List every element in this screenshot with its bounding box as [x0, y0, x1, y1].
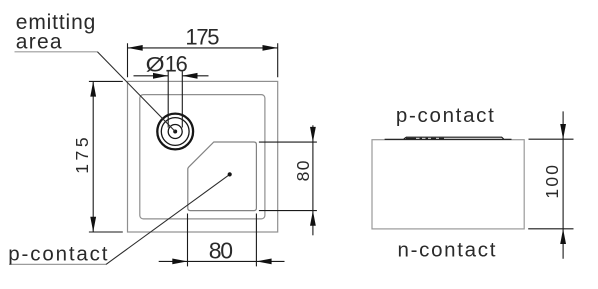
dimension 175 left: extension lines	[89, 81, 123, 232]
side view chip body rectangle	[372, 140, 524, 229]
svg-text:Ø: Ø	[146, 52, 165, 76]
leader: p-contact label diagonal to pad	[106, 174, 230, 264]
side view contact finger dashes	[406, 137, 444, 139]
leader: p-contact label horizontal shoulder	[9, 263, 106, 265]
svg-text:175: 175	[72, 134, 92, 174]
svg-text:80: 80	[293, 159, 313, 181]
svg-text:100: 100	[542, 163, 562, 199]
dimension 80 right: extension lines	[259, 142, 317, 211]
leader dot on pad	[228, 172, 232, 176]
dimension 100: dimension line	[562, 111, 564, 258]
dimension 80 bottom: dimension line	[159, 260, 285, 262]
dimension dia 16: dimension line segments	[134, 75, 209, 77]
leader: emitting area label, horizontal shoulder	[15, 51, 98, 53]
emitting area aperture circle (dia 16)	[168, 125, 182, 139]
dimension 175 left: arrowheads	[90, 81, 96, 96]
dimension 80 bottom: arrowheads	[172, 259, 187, 265]
dimension 100: arrowheads	[560, 124, 566, 139]
dimension 80 right: dimension line	[312, 125, 314, 235]
dimension 175 top: arrowheads	[128, 45, 143, 51]
p-contact pad (chamfered square)	[188, 142, 257, 211]
svg-text:n-contact: n-contact	[398, 239, 498, 262]
emitting area circle middle ring	[161, 118, 189, 146]
dimension 100: extension lines	[528, 139, 573, 229]
chip outer square (top view)	[128, 81, 278, 232]
side view top surface line	[385, 138, 512, 140]
dimension 80 right: arrowheads	[310, 127, 316, 142]
leader: emitting area label, diagonal to emitting circle	[97, 52, 175, 132]
dimension 175 top: extension lines	[128, 43, 278, 77]
side view p-contact mesa top line	[404, 137, 504, 139]
svg-text:80: 80	[209, 237, 232, 263]
svg-text:16: 16	[165, 51, 188, 76]
dimension 175 top: dimension line	[128, 47, 278, 49]
svg-text:area: area	[16, 30, 63, 53]
dimension 80 bottom: extension lines	[188, 214, 257, 267]
svg-text:p-contact: p-contact	[8, 243, 109, 266]
dimension dia 16: arrowheads	[153, 73, 168, 79]
emitting area circle outer ring	[157, 114, 193, 150]
svg-text:p-contact: p-contact	[396, 104, 496, 127]
svg-text:175: 175	[185, 25, 219, 50]
dimension 175 left: dimension line	[92, 81, 94, 232]
dimension dia 16: extension lines	[168, 72, 182, 128]
chip inner square (mesa)	[140, 95, 265, 219]
emitting area center dot	[173, 130, 177, 134]
